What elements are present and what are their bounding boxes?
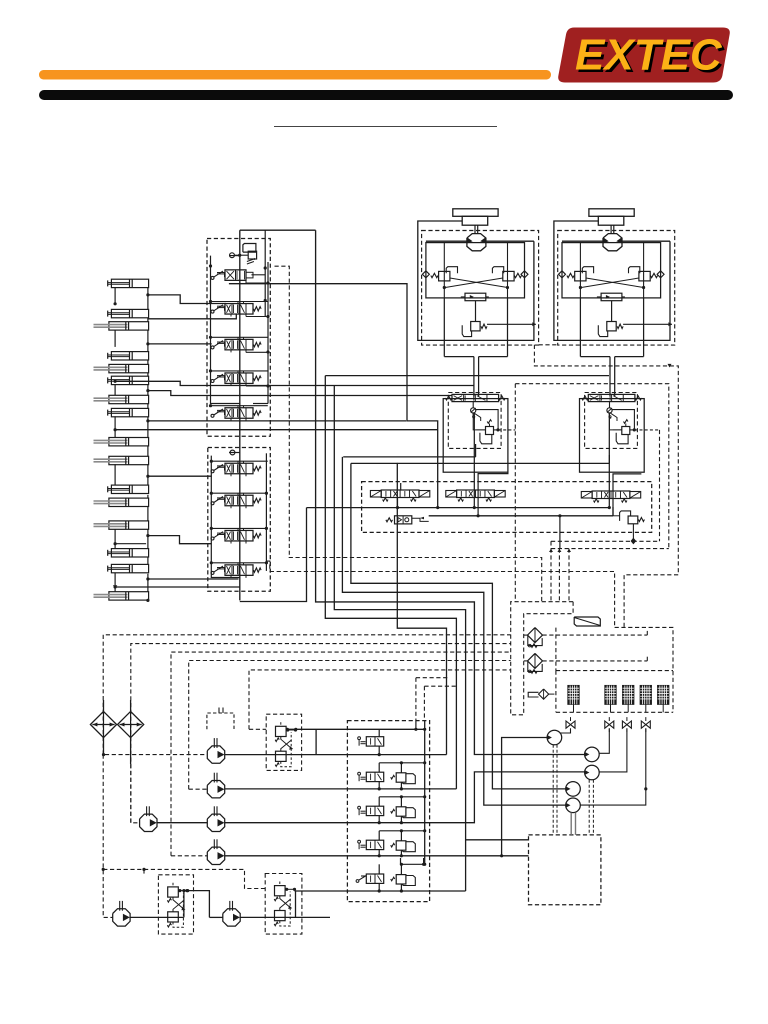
aux bank internal rail [424, 721, 426, 865]
wire cyl2 to bank valve2 B port [148, 314, 236, 319]
block inner link [473, 413, 485, 430]
cooler element [658, 686, 669, 705]
solenoid valve drops [397, 498, 399, 508]
pilot tank box [616, 433, 628, 444]
suction dashed from line1 to pump A [105, 754, 207, 756]
flushing valve [465, 293, 486, 301]
relief valve pair [276, 726, 287, 736]
shutoff valve [605, 721, 610, 728]
pilot manifold dashed box [362, 482, 652, 533]
tank return branch [466, 839, 529, 841]
aux row top line [378, 763, 380, 772]
return line1 lower dashed to bottom pump [103, 755, 113, 918]
cross lines [450, 278, 508, 288]
aux valve [356, 880, 359, 883]
track valve block solid box [580, 399, 645, 473]
dashed drain from track enclosures y344 to y366 [534, 345, 678, 628]
rotary coupling diamond [118, 711, 144, 737]
side columns [579, 243, 581, 298]
bank1 inner frame [211, 256, 241, 404]
cylinder [109, 364, 149, 372]
bank1 relief spring arrows [247, 259, 254, 262]
filter housing dashed outline [511, 602, 573, 715]
filter outlet dashed verticals [555, 628, 557, 671]
bank2 gauge circle [230, 450, 235, 455]
pump D supply line [225, 855, 529, 857]
relief valve pair [168, 887, 179, 897]
cylinder [111, 485, 148, 493]
cooler element [568, 686, 579, 705]
pilot reducing valve with gauge [386, 518, 393, 522]
right aux valve bank dashed box [347, 721, 429, 902]
wire cyl y587 [115, 586, 240, 588]
track A/B drop lines [443, 298, 445, 357]
cross lines [586, 278, 644, 288]
track valve block dashed box [448, 393, 501, 449]
coupling riser lines [103, 700, 105, 711]
return dashed line 2 [131, 644, 511, 823]
motor outlet lines [622, 240, 670, 242]
pump [207, 814, 224, 831]
filler hose gray [570, 813, 572, 835]
test coupler [585, 747, 600, 762]
valve bank 2 enclosure (dashed) [208, 448, 270, 592]
track drive mounting bracket [589, 209, 634, 217]
flushing valve [601, 293, 622, 301]
pump B supply line [225, 788, 457, 790]
cylinder [111, 564, 148, 572]
title underline [274, 126, 497, 128]
dashed collector y541.3 [551, 540, 660, 542]
cooler box [556, 670, 673, 672]
cylinder [111, 352, 148, 360]
reducing valve [622, 427, 630, 435]
bank directional valve [211, 571, 214, 574]
bank directional valve [211, 414, 214, 417]
test coupler [585, 765, 600, 780]
dashed collector y571.5 return header [270, 572, 615, 628]
bank2 inner frame [211, 456, 240, 578]
pump A supply line [225, 754, 447, 756]
pump [140, 814, 157, 831]
cylinder [111, 408, 148, 416]
bank directional valve [211, 502, 214, 505]
bank directional valve [211, 537, 214, 540]
valve drain to filter [559, 516, 561, 549]
pump E to F staircase link [184, 891, 210, 918]
dashed link between track dashed boxes [539, 344, 558, 346]
bank1 unload pilot valve head [243, 244, 256, 253]
wire v325 down to y618 then right to pump B line end [325, 376, 456, 789]
pump [207, 847, 224, 864]
header black bar [39, 90, 733, 100]
cylinder right rail links [147, 288, 149, 310]
cooler element [623, 686, 634, 705]
cooler element [605, 686, 616, 705]
right block B wrap [613, 474, 641, 516]
wire cyl to long run y421 [148, 420, 406, 422]
brake valve [607, 322, 616, 331]
bank1 right-side ports [266, 281, 269, 284]
filter feed drops with arrows [550, 549, 552, 602]
pilot manifold relief valve [620, 511, 631, 521]
bank1 P rail vertical x240 [239, 230, 241, 600]
svg-text:EXTEC: EXTEC [575, 31, 723, 80]
brake valve [471, 322, 480, 331]
junction block dashed box right of banks [275, 266, 290, 557]
filter line right stubs [556, 634, 647, 636]
test coupler [566, 782, 581, 797]
bank2 left rail dots [210, 460, 213, 463]
relief box 1 (gearbox pumps) [266, 714, 301, 770]
side columns [443, 243, 445, 298]
dashed pilot box B top [515, 384, 669, 549]
wire v306.5 solenoid line to bank rail [240, 508, 307, 602]
aux relief valve [391, 775, 395, 779]
wire cyl to bank2 valve6 [148, 475, 212, 477]
hydraulic tank dashed box [529, 835, 601, 905]
pump [207, 746, 224, 763]
pump EF line to riser [130, 916, 184, 918]
test coupler [566, 798, 581, 813]
pump [207, 781, 224, 798]
wire cyl to long run y385 [115, 381, 474, 385]
track inner circuit box [426, 243, 525, 298]
track valve block dashed box [585, 393, 638, 449]
relief drain to filter header [632, 524, 634, 542]
wire cyl to bank2 valve9 y579 [148, 578, 239, 580]
wire y456.9 run then down to coupler C5 [343, 456, 475, 458]
cylinder [109, 438, 149, 446]
wire v316 from top run down to y602 then right to coupler C2 [316, 230, 585, 754]
pump [223, 909, 240, 926]
brake shuttle lines [475, 301, 477, 322]
wire cyl1 to bank valve2 [148, 295, 226, 304]
aux valve [358, 772, 361, 775]
return filter [528, 628, 543, 643]
cylinder [109, 521, 149, 529]
cooler element [640, 686, 651, 705]
shutoff valve [566, 721, 571, 728]
motor outlet lines [486, 240, 534, 242]
wire y375.6 to right track block [325, 375, 609, 377]
relief valve pair [275, 886, 286, 896]
cylinder [111, 309, 148, 317]
left block A line down to pilot rail [473, 413, 475, 508]
track A/B drop lines [579, 298, 581, 357]
header orange bar [39, 70, 551, 80]
wire long run y283.7 from bank to down-feed [229, 284, 438, 508]
rotary coupling diamond [90, 711, 116, 737]
crossover relief right [629, 267, 640, 274]
pilot feed line y507.6 [307, 507, 610, 509]
pump D dashed feed from line3 [171, 855, 207, 857]
track assembly dashed enclosure [422, 231, 539, 346]
oil cooler slash box [574, 617, 600, 626]
shuttle ball [607, 408, 612, 413]
cylinder [109, 322, 149, 330]
bank directional valve [211, 470, 214, 473]
wire y463 run then down to coupler C4 [351, 462, 610, 464]
right return dashed box C [615, 627, 673, 712]
dashed collector y557.5 from junction box [289, 558, 542, 602]
valve bank 1 enclosure (dashed) [207, 239, 270, 437]
pump C supply line to coupler C3 [157, 822, 207, 824]
wire v334 down to y609.6 then down to pump EF line [334, 386, 465, 892]
hydraulic motor [603, 234, 622, 251]
EXTEC logo [558, 28, 730, 83]
track inner circuit box [562, 243, 661, 298]
track outer frame [554, 221, 670, 340]
block wiring [472, 402, 474, 408]
solenoid valve [457, 490, 495, 498]
electric motor dashed cap [207, 713, 234, 729]
cylinder [109, 498, 149, 506]
bank1 left rail dots [209, 264, 212, 267]
track drive mounting bracket [453, 209, 498, 217]
aux valve [358, 737, 361, 740]
pump A out line and riser [249, 728, 266, 730]
return dashed line 3 [171, 652, 511, 856]
right block A line down [608, 413, 610, 508]
breather filter [539, 689, 549, 699]
track outer frame [418, 221, 534, 340]
track valve block solid box [443, 399, 508, 473]
cylinder [111, 376, 148, 384]
wire cyl to long run y430 (brake pilot) [115, 429, 438, 431]
return dashed line 5 [249, 670, 511, 729]
solenoid valve [592, 491, 630, 499]
shutoff valve [622, 721, 627, 728]
aux valve [358, 806, 361, 809]
aux row top line [378, 797, 380, 806]
pump B dashed feed from line4 [189, 788, 208, 790]
dashed pilot box B left edge [514, 384, 516, 602]
return dashed line 1 [103, 635, 511, 755]
dashed collector y548.6 [551, 548, 669, 550]
bank directional valve [211, 380, 214, 383]
aux relief valve [391, 809, 395, 813]
cylinder [109, 456, 149, 464]
bank1 bottom side connectors [246, 282, 268, 284]
reducing valve [486, 427, 494, 435]
pilot feed line y515.8 [429, 515, 613, 517]
tick arrow on left rail [113, 585, 117, 589]
return line2 lower dashed to pump2 [131, 764, 140, 823]
cooler drops to shutoff valves [573, 704, 575, 712]
wire cyl to bank2 valve8 [148, 536, 212, 544]
aux row top line [378, 831, 380, 840]
aux relief valve [391, 843, 395, 847]
suction hoses dashed doubles [552, 745, 554, 835]
brake shuttle lines [611, 301, 613, 322]
coupler C1 line [502, 738, 547, 856]
wire cyl pair2 to bank valve3 [148, 343, 212, 345]
solenoid valve [381, 490, 419, 498]
wire cyl to long run y395 (to left track valve block) [148, 391, 452, 396]
cylinder [111, 549, 148, 557]
left block B wrap to y515.8 [478, 472, 508, 516]
dashed feed row y869.4 [103, 869, 265, 888]
wire v397.3 down then right to pump A line end [397, 463, 446, 755]
bank directional valve [211, 346, 214, 349]
cylinder left port rail [114, 288, 116, 304]
aux relief valve [391, 877, 395, 881]
crossover relief left [582, 267, 593, 274]
row5 riser [400, 858, 402, 864]
aux row top line [378, 729, 380, 736]
cylinder [111, 279, 148, 287]
block wiring [609, 402, 611, 408]
aux valve [358, 840, 361, 843]
track block proportional valve [452, 394, 499, 401]
test coupler [547, 730, 562, 745]
aux row top line [378, 864, 380, 874]
return filter [528, 653, 543, 668]
anticavitation shuttle diamonds [559, 271, 566, 278]
cylinder [109, 395, 149, 403]
track block proportional valve [588, 394, 635, 401]
cylinder [109, 592, 149, 600]
brake pilot dashed vertical right [659, 430, 661, 541]
track assembly dashed enclosure [558, 231, 675, 346]
return dashed line 4 [189, 661, 511, 790]
crossover relief right [492, 267, 503, 274]
relief box 3 [265, 874, 302, 935]
pilot tank box [480, 433, 492, 444]
crossover relief left [446, 267, 457, 274]
bank1 gauge circle [230, 253, 235, 258]
shuttle ball [471, 408, 476, 413]
shutoff valve [641, 721, 646, 728]
aux bank feed dashes from above [416, 677, 448, 679]
bank2 right ports dots [265, 492, 268, 495]
coupler-shutoff links [560, 729, 571, 734]
block inner link [610, 413, 622, 430]
wire bank1 to track circuits top run [240, 229, 316, 231]
pump [113, 909, 130, 926]
bank directional valve [211, 310, 214, 313]
anticavitation shuttle diamonds [422, 271, 429, 278]
hydraulic motor [467, 234, 486, 251]
bank directional valve [211, 276, 214, 279]
relief box 2 [158, 875, 193, 934]
